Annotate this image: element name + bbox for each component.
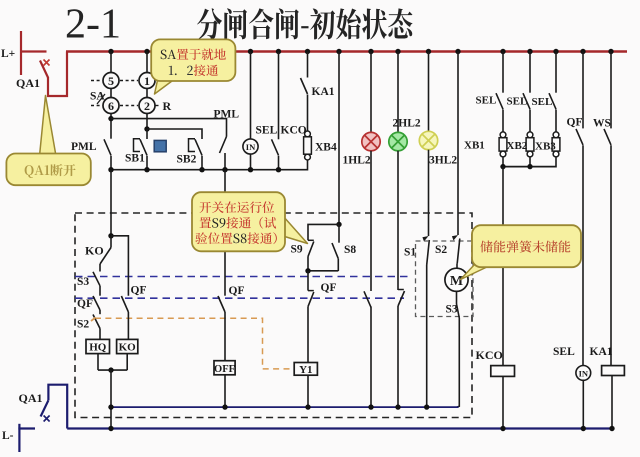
lamp 2HL2 xyxy=(389,132,407,150)
wire SEL3 top drop xyxy=(555,52,557,93)
junction bus407 S1 xyxy=(424,404,429,409)
callout S9 line1 xyxy=(199,201,274,213)
callout SA text line1 xyxy=(161,49,226,61)
contact S8 xyxy=(338,224,340,242)
junction y170 SB2 xyxy=(199,167,204,172)
svg-text:SEL: SEL xyxy=(256,125,278,137)
wire S2-M xyxy=(456,264,458,269)
wire branch to QF right xyxy=(111,236,128,296)
wire 5-6 xyxy=(110,89,112,98)
contact S3 motor xyxy=(457,304,460,318)
wire 3HL2 down xyxy=(428,150,430,236)
svg-text:S8: S8 xyxy=(344,244,356,256)
wire HQ/KO merge xyxy=(98,369,127,371)
wire KCO coil bottom xyxy=(502,376,504,428)
callout S9 line3 xyxy=(195,232,276,244)
callout SA note xyxy=(155,78,177,94)
junction on L+ rail x=530 xyxy=(527,49,532,54)
svg-text:1HL2: 1HL2 xyxy=(343,155,371,167)
wire 1HL2 drop xyxy=(370,52,372,133)
svg-text:HQ: HQ xyxy=(89,342,107,354)
svg-text:QF: QF xyxy=(131,285,147,297)
wire SEL1 mid xyxy=(502,110,504,133)
junction on L+ rail x=428.5 xyxy=(426,49,431,54)
contact S3 left xyxy=(99,264,101,272)
wire S9S8 feeder xyxy=(338,52,340,225)
svg-text:R: R xyxy=(163,99,172,113)
SA contact circle 2 xyxy=(139,98,155,114)
junction on L+ rail x=556 xyxy=(553,49,558,54)
contact SEL1 xyxy=(496,93,503,109)
wire SEL2 mid xyxy=(529,110,531,133)
junction on L+ rail x=278.5 xyxy=(276,49,281,54)
callout spring note xyxy=(461,264,490,280)
wire 1HL2 down xyxy=(370,151,372,291)
SA contact circle 6 xyxy=(103,98,119,114)
svg-text:SEL: SEL xyxy=(476,95,497,107)
wire QF-KO coil xyxy=(127,312,129,339)
junction y170 PML1 xyxy=(108,167,113,172)
wire KO coil bottom xyxy=(126,354,128,371)
contact QF left chain xyxy=(99,286,101,296)
wire Y1 bottom xyxy=(307,375,309,407)
junction L- rail x=503 xyxy=(500,426,505,431)
svg-text:PML: PML xyxy=(214,109,240,121)
node under 6 xyxy=(110,114,112,139)
wire OFF column top xyxy=(224,170,226,296)
coil KO xyxy=(117,339,138,353)
wire motor feeder xyxy=(457,52,459,236)
callout QA1 note xyxy=(40,96,57,157)
junction on L+ rail x=458 xyxy=(455,49,460,54)
wire XB1 bottom xyxy=(502,157,504,168)
svg-text:2HL2: 2HL2 xyxy=(393,117,421,129)
junction L- rail x=111 xyxy=(108,426,113,431)
wire IN1 bottom xyxy=(250,154,252,170)
junction L- rail x=583.3 xyxy=(581,426,586,431)
wire SEL2 top drop xyxy=(529,52,531,93)
SA contact circle 1 xyxy=(139,73,155,89)
svg-text:S2: S2 xyxy=(77,319,89,331)
wire bus y118.6 xyxy=(111,119,227,137)
connector XB3 xyxy=(553,132,559,138)
svg-text:PML: PML xyxy=(71,141,97,153)
junction on L+ rail x=398 xyxy=(395,49,400,54)
wire L- riser (navy) xyxy=(18,424,20,452)
svg-text:XB1: XB1 xyxy=(464,140,485,152)
junction on L+ rail x=250.5 xyxy=(248,49,253,54)
svg-text:KO: KO xyxy=(85,244,104,258)
svg-text:WS: WS xyxy=(593,118,611,130)
junction on L+ rail x=111 xyxy=(108,49,113,54)
title text main xyxy=(197,8,412,39)
svg-text:OFF: OFF xyxy=(214,364,235,375)
svg-text:KO: KO xyxy=(119,342,137,354)
wire QA1 jog (red) xyxy=(48,52,67,97)
junction bus407 1HL2 xyxy=(368,404,373,409)
wire L+ stub (red) xyxy=(20,50,47,52)
wire QF top drop xyxy=(582,52,584,129)
svg-text:IN: IN xyxy=(246,142,256,152)
motor M xyxy=(445,268,468,291)
wire QF-Y1 xyxy=(307,307,309,363)
breaker QA1 blade (red) xyxy=(40,61,48,78)
svg-text:KA1: KA1 xyxy=(590,346,613,358)
wire to negative bus xyxy=(110,370,112,428)
wire 2HL2 down xyxy=(397,151,399,290)
svg-text:KCO: KCO xyxy=(281,125,307,137)
wire S9 branch xyxy=(308,224,339,240)
svg-text:2-1: 2-1 xyxy=(65,2,121,48)
contact SEL2 xyxy=(523,93,530,109)
contact KCO1 xyxy=(272,139,279,155)
svg-text:SEL: SEL xyxy=(532,96,553,108)
device IN circle 1 xyxy=(243,139,258,154)
junction on L+ rail x=503 xyxy=(500,49,505,54)
svg-text:2: 2 xyxy=(144,99,150,113)
wire OFF bottom xyxy=(224,375,226,407)
contact KA1 xyxy=(301,78,308,94)
contact QF lamp column 1 xyxy=(364,291,371,307)
callout S9 line2 xyxy=(200,217,277,229)
wire S9 bottom xyxy=(307,257,309,272)
wire KA1 coil bottom xyxy=(611,376,613,429)
contact QF Y1 column xyxy=(307,271,309,291)
svg-text:L+: L+ xyxy=(1,48,15,60)
wire SB2 bottom xyxy=(201,156,203,171)
pushbutton SB2 xyxy=(189,139,196,152)
contact S9 xyxy=(308,239,314,241)
wire M-S3 xyxy=(456,291,458,304)
wire to contact 1 xyxy=(146,52,148,73)
junction L- rail x=612 xyxy=(609,426,614,431)
wire QF-OFF xyxy=(224,312,226,361)
connector XB4 xyxy=(305,131,311,137)
wire to contact 5 xyxy=(110,52,112,73)
bus L- rail (navy) xyxy=(67,427,613,429)
junction on L+ rail x=307.5 xyxy=(305,49,310,54)
wire KCO1 bottom xyxy=(278,156,280,171)
wire WS long drop xyxy=(610,145,612,365)
coil KCO xyxy=(491,366,515,377)
contact QF lamp column 2 xyxy=(398,289,404,291)
dashed link line 2 (navy) xyxy=(75,297,404,299)
SA dashes row2 xyxy=(91,105,102,107)
junction y170 SB1 xyxy=(144,167,149,172)
wire 2HL2 to bus xyxy=(397,306,399,407)
wire S9S8 merge xyxy=(308,270,338,272)
contact S1 with arrow xyxy=(422,236,428,242)
junction bus407 left xyxy=(108,404,113,409)
wire KA1 drop xyxy=(307,52,309,78)
svg-text:QF: QF xyxy=(321,282,337,294)
wire KA1-XB4 xyxy=(307,95,309,134)
motor sub-box dashed xyxy=(416,241,474,317)
blue square indicator xyxy=(154,140,166,151)
wire IN2 bottom xyxy=(582,380,584,428)
contact S2 left xyxy=(99,310,101,314)
junction y170 IN1 xyxy=(248,167,253,172)
dashed link line 1 (navy) xyxy=(75,276,409,278)
contact WS xyxy=(604,129,611,145)
connector XB2 xyxy=(527,132,533,138)
contact QF OFF column xyxy=(218,296,225,312)
coil OFF xyxy=(214,361,235,375)
svg-text:XB4: XB4 xyxy=(315,142,337,154)
svg-text:QF: QF xyxy=(567,117,583,129)
wire KCO coil drop xyxy=(502,167,504,366)
wire XB2 bottom xyxy=(529,157,531,168)
wire 3HL2 drop xyxy=(428,52,430,132)
lamp 3HL2 xyxy=(419,131,437,149)
contact PML2 xyxy=(220,137,227,154)
svg-text:KCO: KCO xyxy=(476,348,503,362)
junction on L+ rail x=371 xyxy=(368,49,373,54)
svg-text:Y1: Y1 xyxy=(299,364,312,376)
wire PML1 bottom xyxy=(110,156,112,171)
svg-text:3HL2: 3HL2 xyxy=(429,155,457,167)
svg-text:IN: IN xyxy=(579,368,589,378)
junction bus407 Y1 xyxy=(305,404,310,409)
wire SEL1 top drop xyxy=(502,52,504,93)
junction bus407 OFF xyxy=(222,404,227,409)
contact KO xyxy=(100,248,111,265)
connector XB1 xyxy=(500,132,506,138)
wire SB1 bottom xyxy=(146,156,148,171)
contact SEL3 xyxy=(549,93,556,109)
wire QF long drop xyxy=(582,145,584,365)
pushbutton SB1 xyxy=(134,139,141,152)
callout spring text xyxy=(480,240,570,252)
svg-text:L-: L- xyxy=(2,430,14,442)
junction on L+ rail x=147 xyxy=(144,49,149,54)
wire KO top stub xyxy=(110,236,112,248)
device IN circle 2 xyxy=(576,366,591,381)
wire HQ bottom xyxy=(97,354,99,371)
svg-text:QA1: QA1 xyxy=(16,76,40,90)
wire SB1 top xyxy=(146,129,148,139)
wire XB merge bar xyxy=(503,166,556,168)
wire XB4 bottom xyxy=(307,160,309,171)
svg-text:SB2: SB2 xyxy=(177,154,197,166)
wire WS top drop xyxy=(610,52,612,129)
dashed link S2-Y1 (orange) xyxy=(95,318,291,369)
bus L+ rail (red) xyxy=(66,50,627,53)
svg-text:S9: S9 xyxy=(291,244,303,256)
svg-text:XB2: XB2 xyxy=(507,140,528,152)
svg-text:S1: S1 xyxy=(404,247,416,259)
lamp 1HL2 xyxy=(362,132,380,150)
bus control negative y407 xyxy=(111,406,459,408)
wire bus y129 xyxy=(147,129,202,139)
svg-text:6: 6 xyxy=(108,99,114,113)
callout SA text line2 xyxy=(169,64,218,76)
coil KA1 xyxy=(602,366,625,376)
contact PML1 xyxy=(104,139,111,155)
wire SEL1 drop xyxy=(250,52,252,140)
wire left drop into box xyxy=(110,170,112,236)
svg-text:S3: S3 xyxy=(77,276,89,288)
wire XB3 bottom xyxy=(555,157,557,168)
wire SEL3 mid xyxy=(555,110,557,133)
svg-text:1: 1 xyxy=(144,74,150,88)
junction on L+ rail x=583 xyxy=(580,49,585,54)
wire 1HL2 to bus xyxy=(370,307,372,407)
breaker QA1 bottom blade (navy) xyxy=(41,400,49,416)
coil Y1 xyxy=(294,363,317,376)
contact QF top xyxy=(576,129,583,145)
svg-text:SB1: SB1 xyxy=(125,153,145,165)
svg-text:SEL: SEL xyxy=(507,96,528,108)
node under 2 xyxy=(146,114,148,130)
wire PML2 bottom xyxy=(224,153,226,171)
wire S2-HQ xyxy=(99,329,101,340)
junction y170 PML2 xyxy=(222,167,227,172)
wire L+ riser (red) xyxy=(20,31,22,75)
junction y170 KCO1 xyxy=(276,167,281,172)
junction bus407 2HL2 xyxy=(395,404,400,409)
svg-text:SEL: SEL xyxy=(553,346,575,358)
SA dashes row1 xyxy=(91,80,102,82)
svg-text:QF: QF xyxy=(77,298,93,310)
svg-text:S2: S2 xyxy=(435,244,447,256)
dashed enclosure box xyxy=(75,213,472,418)
wire 2HL2 drop xyxy=(397,52,399,133)
contact S2 with arrow xyxy=(452,235,458,241)
wire QA1 bottom jog (navy) xyxy=(48,385,67,429)
bus wire y170 xyxy=(110,169,307,171)
coil HQ xyxy=(86,339,110,353)
R terminal xyxy=(156,105,162,107)
svg-text:5: 5 xyxy=(108,74,114,88)
svg-text:QF: QF xyxy=(229,285,245,297)
contact QF branch xyxy=(121,296,128,312)
wire S1 to bus xyxy=(426,265,428,407)
svg-text:XB3: XB3 xyxy=(535,141,556,153)
svg-text:M: M xyxy=(450,274,463,289)
callout S9 note xyxy=(283,216,308,244)
callout QA1 text xyxy=(25,164,76,178)
svg-text:QA1: QA1 xyxy=(19,391,43,405)
wire 1-2 xyxy=(146,89,148,98)
wire S8 bottom xyxy=(337,259,339,271)
SA contact circle 5 xyxy=(103,73,119,89)
junction on L+ rail x=339 xyxy=(336,49,341,54)
wire L- stub (navy) xyxy=(18,427,35,429)
svg-text:KA1: KA1 xyxy=(312,86,335,98)
wire S3 to bus corner xyxy=(457,318,459,407)
junction on L+ rail x=611 xyxy=(608,49,613,54)
wire KCO1 drop xyxy=(278,52,280,140)
